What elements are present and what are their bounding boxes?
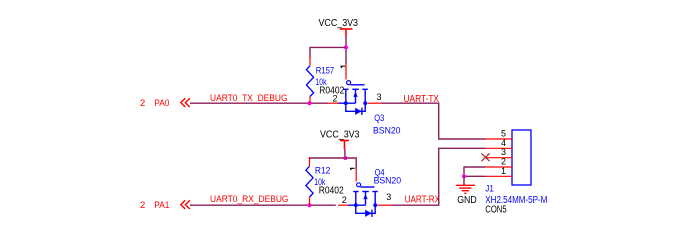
svg-text:UART-RX: UART-RX xyxy=(405,194,441,205)
connector pin 3 xyxy=(486,157,513,159)
svg-text:VCC_3V3: VCC_3V3 xyxy=(320,129,360,140)
svg-text:BSN20: BSN20 xyxy=(374,176,402,187)
ground xyxy=(456,176,475,193)
svg-text:Q3: Q3 xyxy=(374,113,384,124)
svg-text:PA1: PA1 xyxy=(154,200,169,211)
power VCC_3V3 bottom bar xyxy=(340,141,349,150)
wire VCC junction to Q4 gate xyxy=(345,158,356,170)
transistor Q3 xyxy=(338,81,368,115)
wire pin1 to gnd xyxy=(464,175,486,177)
svg-text:UART0_TX_DEBUG: UART0_TX_DEBUG xyxy=(210,93,288,104)
port PA0 text xyxy=(140,98,169,109)
connector J1 body xyxy=(512,130,531,185)
power VCC_3V3 top bar xyxy=(340,29,353,37)
connector pin 4 xyxy=(486,147,513,149)
wire Q4 drain to connector pin4 xyxy=(391,148,486,205)
svg-text:J1: J1 xyxy=(485,183,494,194)
port PA0 chevron xyxy=(181,98,190,107)
port PA1 chevron xyxy=(181,200,190,209)
resistor R157 xyxy=(306,57,313,103)
pin 1 gate Q3 (red pin + rotated '1') xyxy=(341,64,347,80)
svg-text:3: 3 xyxy=(386,192,391,202)
svg-text:2: 2 xyxy=(333,94,338,104)
svg-text:UART0_RX_DEBUG: UART0_RX_DEBUG xyxy=(210,194,289,205)
pin 2 Q4 xyxy=(338,204,349,206)
junction VCC top xyxy=(344,45,348,49)
resistor R12 xyxy=(306,157,313,205)
junction VCC bottom xyxy=(343,156,347,160)
junction R12 bottom xyxy=(308,203,312,207)
wire PA1 to Q4 source xyxy=(190,204,336,206)
wire PA0 to Q3 source xyxy=(190,102,328,104)
svg-text:CON5: CON5 xyxy=(485,205,507,216)
svg-text:VCC_3V3: VCC_3V3 xyxy=(319,18,359,29)
pin 2 Q3 xyxy=(328,102,339,104)
svg-text:3: 3 xyxy=(377,92,382,102)
port PA1 text xyxy=(140,200,169,211)
svg-text:2: 2 xyxy=(140,200,145,211)
junction R157 bottom xyxy=(308,101,312,105)
wire VCC branch to R157 xyxy=(310,47,346,57)
wire VCC bottom trunk xyxy=(344,149,346,158)
svg-text:2: 2 xyxy=(342,195,347,205)
no connect X pin 3 xyxy=(481,153,489,161)
connector pin 1 xyxy=(486,175,513,177)
svg-text:GND: GND xyxy=(457,195,477,206)
svg-text:1: 1 xyxy=(501,166,506,176)
svg-text:PA0: PA0 xyxy=(154,98,169,109)
pin 3 Q4 xyxy=(377,204,391,206)
svg-text:BSN20: BSN20 xyxy=(373,125,401,136)
svg-text:2: 2 xyxy=(140,98,145,109)
svg-text:R0402: R0402 xyxy=(319,186,344,197)
wire VCC branch to R12 xyxy=(310,158,346,160)
connector pin 2 xyxy=(486,166,513,168)
wire pin2 to gnd xyxy=(464,167,486,176)
svg-text:R157: R157 xyxy=(316,65,334,76)
transistor Q4 xyxy=(348,183,378,217)
pin 3 Q3 xyxy=(367,102,381,104)
pin 1 gate Q4 (red pin + rotated '1') xyxy=(350,168,356,181)
connector pin 5 xyxy=(486,138,513,140)
junction gnd xyxy=(462,174,466,178)
svg-text:R12: R12 xyxy=(315,165,330,176)
wire VCC trunk to junction xyxy=(345,37,347,65)
wire Q3 drain to connector pin5 xyxy=(381,103,486,139)
